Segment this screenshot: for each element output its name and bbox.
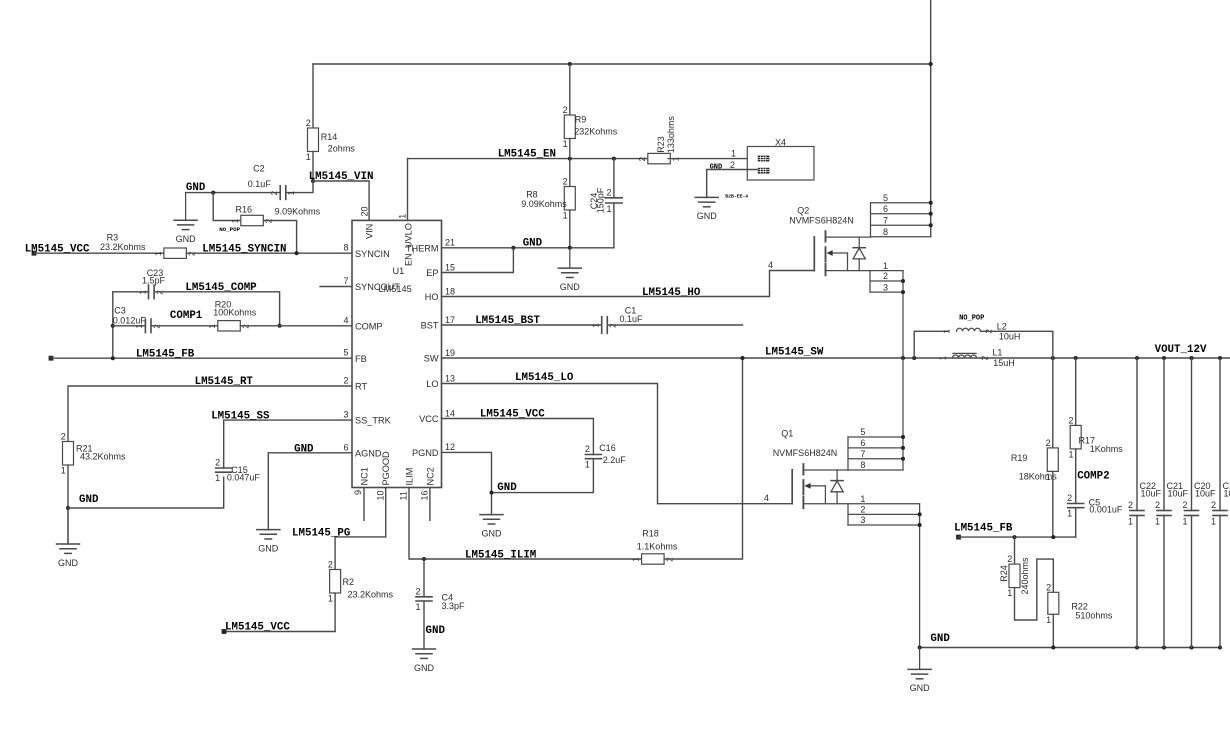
- node Q2 d5: [929, 201, 933, 205]
- node gnd/C19 junction: [1218, 646, 1222, 650]
- svg-text:FB: FB: [355, 354, 367, 364]
- svg-text:AGND: AGND: [355, 448, 382, 458]
- svg-text:2: 2: [883, 271, 888, 281]
- node VOUT/C19 junction: [1218, 356, 1222, 360]
- node EP junction: [511, 246, 515, 250]
- node Q2 d7: [929, 223, 933, 227]
- wire C22 bottom lead: [1136, 516, 1138, 648]
- node Q1 d6: [901, 446, 905, 450]
- svg-text:VCC: VCC: [419, 414, 439, 424]
- svg-text:2: 2: [61, 432, 66, 442]
- svg-text:LM5145_FB: LM5145_FB: [136, 348, 195, 360]
- wire R14 bottom lead: [312, 152, 314, 182]
- resistor R18: [632, 528, 678, 564]
- svg-text:1: 1: [231, 218, 240, 223]
- svg-text:GND: GND: [497, 482, 517, 494]
- label R23 name: [656, 116, 676, 154]
- wire FB: [51, 357, 352, 359]
- svg-text:0.001uF: 0.001uF: [1089, 505, 1123, 515]
- wire C23 right lead: [154, 292, 280, 326]
- svg-text:18Kohms: 18Kohms: [1019, 471, 1058, 481]
- wire L2 branch left: [914, 331, 948, 358]
- wire SYNCOUT stub: [320, 286, 352, 288]
- svg-text:18: 18: [445, 286, 455, 296]
- svg-text:6: 6: [883, 204, 888, 214]
- svg-text:21: 21: [445, 238, 455, 248]
- ground: [257, 530, 280, 554]
- svg-text:NVMFS6H824N: NVMFS6H824N: [789, 215, 854, 225]
- svg-text:232Kohms: 232Kohms: [574, 127, 618, 137]
- svg-text:L1: L1: [992, 348, 1002, 358]
- wire R19 top lead: [1052, 358, 1054, 448]
- node VIN rail junction: [929, 62, 933, 66]
- svg-text:2: 2: [860, 505, 865, 515]
- svg-text:Q2: Q2: [797, 206, 809, 216]
- svg-text:ILIM: ILIM: [405, 468, 415, 486]
- wire LO: [442, 384, 793, 504]
- svg-text:R9: R9: [575, 115, 587, 125]
- wire SW rail: [442, 357, 1230, 359]
- svg-text:10uH: 10uH: [999, 332, 1021, 342]
- op-amp U1 LM5145 controller: [343, 206, 455, 500]
- inductor L1: [939, 348, 1015, 369]
- svg-text:1: 1: [154, 251, 163, 256]
- inductor L2: [943, 322, 1021, 342]
- svg-text:1: 1: [1182, 517, 1187, 527]
- svg-text:2: 2: [215, 458, 220, 468]
- resistor R2: [328, 560, 394, 604]
- svg-text:5: 5: [343, 348, 348, 358]
- resistor R16: [231, 204, 321, 225]
- svg-text:EN_UVLO: EN_UVLO: [404, 223, 414, 266]
- node SW/Q junction: [901, 356, 905, 360]
- svg-text:1Kohms: 1Kohms: [1090, 444, 1124, 454]
- capacitor C23: [138, 268, 165, 299]
- node FB left junction: [111, 356, 115, 360]
- svg-text:1: 1: [1128, 517, 1133, 527]
- svg-text:1: 1: [208, 324, 217, 329]
- capacitor C4: [415, 586, 465, 612]
- svg-text:9.09Kohms: 9.09Kohms: [521, 199, 567, 209]
- node VOUT/C21 junction: [1162, 356, 1166, 360]
- wire VCC: [442, 419, 594, 455]
- svg-text:1: 1: [563, 211, 568, 221]
- svg-text:SS_TRK: SS_TRK: [355, 416, 392, 426]
- resistor R21: [61, 432, 126, 476]
- port LM5145_VCC left: [32, 251, 37, 256]
- transistor Q2 NVMFS6H824N: [789, 206, 870, 276]
- svg-text:0.012uF: 0.012uF: [113, 316, 147, 326]
- svg-text:1: 1: [563, 139, 568, 149]
- svg-text:2: 2: [306, 118, 311, 128]
- svg-text:10uF: 10uF: [1224, 489, 1230, 499]
- svg-text:3.3pF: 3.3pF: [442, 601, 466, 611]
- svg-text:23.2Kohms: 23.2Kohms: [348, 590, 394, 600]
- svg-text:1: 1: [215, 473, 220, 483]
- ground: [57, 508, 80, 568]
- wire R24 to R22: [1015, 559, 1054, 620]
- ground: [558, 248, 581, 292]
- svg-text:1: 1: [328, 594, 333, 604]
- wire R16 left lead: [213, 193, 241, 221]
- wire R9 top lead: [569, 64, 571, 115]
- svg-text:1: 1: [860, 494, 865, 504]
- svg-text:100Kohms: 100Kohms: [213, 308, 257, 318]
- wire C24 bottom lead: [613, 203, 615, 248]
- svg-text:GND: GND: [910, 683, 931, 693]
- svg-text:23.2Kohms: 23.2Kohms: [100, 242, 146, 252]
- svg-text:SW: SW: [424, 354, 439, 364]
- svg-text:6: 6: [860, 438, 865, 448]
- resistor R3: [100, 233, 197, 259]
- node R8 gnd junction: [568, 246, 572, 250]
- wire VIN_local to C2: [287, 181, 313, 193]
- wire BST: [442, 324, 602, 326]
- svg-text:240ohms: 240ohms: [1020, 557, 1030, 595]
- svg-text:7: 7: [343, 276, 348, 286]
- capacitor C20: [1182, 481, 1216, 527]
- svg-text:LM5145_ILIM: LM5145_ILIM: [465, 549, 536, 561]
- svg-text:GND: GND: [414, 663, 435, 673]
- wire C1 to SW: [607, 324, 742, 326]
- capacitor C21: [1155, 481, 1189, 527]
- svg-text:15: 15: [445, 262, 455, 272]
- capacitor C3: [113, 305, 162, 332]
- wire VCC port to R3: [34, 252, 164, 254]
- svg-text:LM5145_RT: LM5145_RT: [195, 376, 254, 388]
- svg-text:VOUT_12V: VOUT_12V: [1155, 344, 1207, 356]
- wire SS: [224, 420, 352, 468]
- svg-text:R14: R14: [321, 132, 338, 142]
- wire R8 bottom lead: [569, 210, 571, 248]
- svg-text:4: 4: [764, 493, 769, 503]
- svg-text:10: 10: [375, 490, 385, 500]
- connector block Q1 source pins 1-3: [848, 494, 920, 648]
- wire R8 top lead: [569, 159, 571, 187]
- wire R16 right lead: [263, 221, 296, 254]
- node SW/R19 junction: [1051, 356, 1055, 360]
- svg-text:GND: GND: [79, 494, 99, 506]
- wire R17 bottom lead: [1075, 449, 1077, 504]
- wire C20 bottom lead: [1191, 516, 1193, 648]
- svg-text:2: 2: [585, 444, 590, 454]
- wire C3 left lead: [113, 325, 146, 327]
- svg-text:LM5145_VCC: LM5145_VCC: [225, 622, 290, 634]
- svg-text:GND: GND: [523, 238, 543, 250]
- svg-text:C3: C3: [114, 305, 126, 315]
- svg-text:GND: GND: [560, 282, 581, 292]
- svg-text:LO: LO: [426, 379, 438, 389]
- svg-text:12: 12: [445, 442, 455, 452]
- svg-text:2ohms: 2ohms: [328, 144, 356, 154]
- node ILIM/C4 junction: [422, 557, 426, 561]
- wire C21 top lead: [1163, 358, 1165, 511]
- wire C4 bottom lead: [423, 601, 425, 649]
- svg-text:19: 19: [445, 348, 455, 358]
- svg-text:1: 1: [883, 261, 888, 271]
- svg-text:1: 1: [606, 204, 611, 214]
- node Q1 s3: [918, 523, 922, 527]
- svg-text:SYNCOUT: SYNCOUT: [355, 282, 400, 292]
- svg-text:8: 8: [860, 460, 865, 470]
- svg-text:GND: GND: [710, 164, 723, 172]
- svg-text:133ohms: 133ohms: [666, 116, 676, 154]
- svg-text:GND: GND: [697, 211, 718, 221]
- svg-text:10uF: 10uF: [1195, 489, 1216, 499]
- svg-text:2: 2: [1211, 500, 1216, 510]
- svg-text:NO_POP: NO_POP: [219, 226, 240, 233]
- wire EN pin lead: [407, 159, 409, 221]
- svg-text:8: 8: [883, 227, 888, 237]
- connector block Q1 drain pins 5-8: [848, 358, 903, 470]
- wire C20 top lead: [1191, 358, 1193, 511]
- svg-text:1.1Kohms: 1.1Kohms: [637, 541, 678, 551]
- node Q2 s2: [901, 279, 905, 283]
- resistor R22: [1046, 582, 1113, 625]
- capacitor C19: [1211, 481, 1230, 527]
- svg-text:7: 7: [860, 449, 865, 459]
- svg-text:510ohms: 510ohms: [1075, 611, 1113, 621]
- wire R19 bottom lead: [1052, 471, 1054, 537]
- svg-text:NC2: NC2: [425, 467, 435, 485]
- svg-text:1: 1: [1046, 615, 1051, 625]
- svg-text:BST: BST: [421, 321, 439, 331]
- svg-text:2.2uF: 2.2uF: [603, 455, 627, 465]
- svg-text:2: 2: [328, 560, 333, 570]
- ground: [413, 649, 436, 673]
- svg-text:1: 1: [1211, 517, 1216, 527]
- capacitor C24: [606, 187, 623, 214]
- wire EP lead: [442, 248, 514, 273]
- svg-text:VIN: VIN: [365, 224, 375, 239]
- svg-text:R16: R16: [236, 204, 253, 214]
- node VOUT/C22 junction: [1135, 356, 1139, 360]
- svg-text:2: 2: [343, 376, 348, 386]
- wire gnd to C15: [68, 477, 224, 508]
- wire C4 top lead: [423, 559, 425, 597]
- svg-text:C16: C16: [599, 443, 616, 453]
- svg-text:RT: RT: [355, 382, 367, 392]
- wire R17 top lead: [1075, 358, 1077, 425]
- svg-text:9: 9: [353, 490, 363, 495]
- svg-text:R18: R18: [642, 528, 659, 538]
- capacitor C5: [1067, 493, 1123, 519]
- svg-text:X4: X4: [775, 137, 786, 147]
- svg-text:14: 14: [445, 408, 455, 418]
- wire PGOOD stub: [385, 488, 387, 537]
- resistor R14: [306, 118, 356, 162]
- wire R21 bottom lead: [67, 465, 69, 544]
- svg-text:2: 2: [638, 156, 647, 161]
- wire GND rail: [920, 647, 1221, 649]
- wire C19 bottom lead: [1219, 516, 1221, 648]
- node Q2 s3: [901, 290, 905, 294]
- resistor R9: [563, 105, 618, 149]
- ground: [174, 193, 197, 244]
- wire C19 top lead: [1219, 358, 1221, 511]
- wire VIN top rail: [313, 63, 931, 65]
- svg-text:COMP1: COMP1: [170, 310, 203, 322]
- wire PG: [335, 537, 386, 570]
- resistor R23: [638, 153, 681, 163]
- svg-text:10uF: 10uF: [1168, 489, 1189, 499]
- svg-text:0.1uF: 0.1uF: [620, 314, 644, 324]
- svg-text:Q1: Q1: [781, 429, 793, 439]
- wire L2 branch right: [981, 331, 1053, 358]
- svg-text:COMP: COMP: [355, 321, 383, 331]
- svg-text:2: 2: [415, 586, 420, 596]
- svg-text:1: 1: [1067, 509, 1072, 519]
- connector block Q2 drain pins 5-8: [871, 193, 931, 237]
- node gnd/C21 junction: [1162, 646, 1166, 650]
- svg-text:2: 2: [1155, 500, 1160, 510]
- resistor R19: [1011, 438, 1058, 482]
- svg-text:9.09Kohms: 9.09Kohms: [275, 206, 321, 216]
- svg-text:2: 2: [1046, 582, 1051, 592]
- svg-text:GND: GND: [186, 182, 206, 194]
- wire R18 to SW: [664, 358, 742, 559]
- capacitor C15: [215, 458, 260, 484]
- svg-text:LM5145_SW: LM5145_SW: [765, 346, 824, 358]
- node VOUT/R17 junction: [1074, 356, 1078, 360]
- svg-text:2: 2: [1007, 554, 1012, 564]
- svg-text:3: 3: [883, 282, 888, 292]
- svg-text:1: 1: [287, 190, 296, 195]
- svg-text:11: 11: [399, 491, 409, 500]
- svg-text:R24: R24: [999, 565, 1009, 582]
- svg-text:1.5pF: 1.5pF: [142, 275, 166, 285]
- svg-text:PGND: PGND: [412, 448, 439, 458]
- svg-text:GND: GND: [482, 528, 503, 538]
- node Q2 d6: [929, 212, 933, 216]
- wire R14 top lead: [312, 64, 314, 128]
- node C2/R16 gnd junction: [211, 191, 215, 195]
- svg-text:LM5145_LO: LM5145_LO: [515, 372, 574, 384]
- node EN/R9 junction: [568, 157, 572, 161]
- wire AGND: [268, 453, 352, 530]
- svg-text:LM5145_PG: LM5145_PG: [292, 527, 350, 539]
- svg-text:1: 1: [61, 466, 66, 476]
- wire C16 bottom lead: [492, 459, 594, 493]
- wire C5 bottom lead: [1075, 508, 1077, 537]
- svg-text:1: 1: [939, 355, 948, 360]
- svg-text:LM5145_BST: LM5145_BST: [475, 315, 540, 327]
- resistor R24: [1007, 554, 1020, 598]
- resistor R17: [1068, 415, 1123, 459]
- node gnd/Q1 junction: [918, 646, 922, 650]
- svg-text:1: 1: [632, 557, 641, 562]
- svg-text:1: 1: [943, 329, 952, 334]
- capacitor C16: [585, 443, 626, 470]
- wire C24 top lead: [613, 159, 615, 198]
- node Q1 s2: [918, 512, 922, 516]
- wire C22 top lead: [1136, 358, 1138, 511]
- wire THERM gnd: [442, 247, 614, 249]
- svg-text:2: 2: [563, 105, 568, 115]
- svg-text:NVMFS6H824N: NVMFS6H824N: [773, 448, 838, 458]
- svg-text:1: 1: [138, 290, 147, 295]
- wire R22 bottom lead: [1052, 614, 1054, 647]
- svg-text:2: 2: [1068, 415, 1073, 425]
- svg-text:3: 3: [343, 410, 348, 420]
- svg-text:NC1: NC1: [360, 467, 370, 485]
- wire R2 bottom lead: [334, 593, 336, 632]
- svg-text:2: 2: [1128, 500, 1133, 510]
- node COMP junction: [278, 324, 282, 328]
- svg-text:GND: GND: [294, 443, 314, 455]
- wire RT: [68, 386, 352, 442]
- svg-text:LM5145_VCC: LM5145_VCC: [480, 409, 545, 421]
- svg-text:LM5145_VIN: LM5145_VIN: [309, 171, 374, 183]
- label C24 value: [589, 187, 606, 213]
- port LM5145_FB left: [49, 356, 54, 361]
- svg-text:LM5145_EN: LM5145_EN: [498, 148, 556, 160]
- svg-text:GND: GND: [426, 625, 446, 637]
- svg-text:7: 7: [883, 215, 888, 225]
- resistor R20: [208, 300, 257, 331]
- svg-text:COMP2: COMP2: [1077, 471, 1109, 483]
- wire comp left vertical: [112, 292, 114, 358]
- port LM5145_FB right: [956, 535, 961, 540]
- wire R20 to COMP pin: [240, 325, 352, 327]
- svg-text:GND: GND: [176, 234, 197, 244]
- svg-text:1: 1: [731, 148, 736, 158]
- wire R23 to X4: [668, 158, 757, 160]
- svg-text:2: 2: [981, 355, 990, 360]
- svg-text:1: 1: [415, 602, 420, 612]
- wire EN: [408, 158, 648, 160]
- wire HO: [442, 271, 815, 297]
- node gnd/C20 junction: [1190, 646, 1194, 650]
- svg-text:0.047uF: 0.047uF: [227, 472, 261, 482]
- svg-text:3: 3: [860, 515, 865, 525]
- svg-text:LM5145_FB: LM5145_FB: [954, 522, 1013, 534]
- svg-text:6: 6: [343, 442, 348, 452]
- svg-text:20: 20: [359, 206, 369, 216]
- svg-text:PGOOD: PGOOD: [381, 451, 391, 486]
- svg-text:C2: C2: [253, 164, 265, 174]
- svg-text:LM5145_COMP: LM5145_COMP: [185, 282, 257, 294]
- node VIN_local: [311, 179, 315, 183]
- wire NC1 stub: [363, 488, 365, 521]
- label R24 name: [999, 557, 1030, 595]
- connector block Q2 source pins 1-3: [870, 261, 903, 358]
- svg-text:L2: L2: [997, 322, 1007, 332]
- svg-text:150pF: 150pF: [596, 187, 606, 213]
- svg-text:HO: HO: [425, 292, 439, 302]
- svg-text:B2B-EE-A: B2B-EE-A: [725, 193, 748, 199]
- resistor R8: [521, 177, 575, 221]
- svg-text:R23: R23: [656, 136, 666, 153]
- node gnd/R22 junction: [1051, 646, 1055, 650]
- svg-text:U1: U1: [393, 266, 405, 276]
- node EN/C24 junction: [612, 157, 616, 161]
- capacitor C2: [248, 164, 296, 200]
- svg-text:13: 13: [445, 373, 455, 383]
- svg-text:GND: GND: [258, 543, 279, 553]
- svg-text:8: 8: [343, 243, 348, 253]
- svg-text:SYNCIN: SYNCIN: [355, 249, 390, 259]
- wire C21 bottom lead: [1163, 516, 1165, 648]
- node rail/R9 junction: [568, 62, 572, 66]
- wire C23 left lead: [113, 291, 149, 293]
- connector X4: [747, 137, 814, 180]
- svg-text:1: 1: [585, 460, 590, 470]
- svg-text:2: 2: [1046, 438, 1051, 448]
- node gnd/C22 junction: [1135, 646, 1139, 650]
- svg-text:1: 1: [1068, 449, 1073, 459]
- wire VIN vertical rail: [930, 0, 932, 237]
